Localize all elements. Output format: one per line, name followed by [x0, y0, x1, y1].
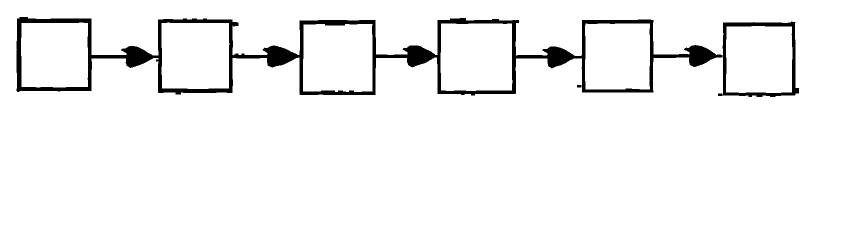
box 1 left-edge bulge: [16, 50, 19, 73]
arrow 1 shaft wire: [91, 55, 153, 59]
arrow 5 shaft wire: [653, 54, 716, 58]
arrow 4 stub wire to next box: [574, 56, 583, 59]
arrow 3 head: [403, 46, 435, 67]
box 4 top-right corner tick: [516, 20, 519, 23]
arrow 1 stub wire to next box: [153, 56, 160, 59]
box 2 bottom-left drip: [176, 92, 182, 94]
box 6 bottom-right corner ear: [795, 88, 799, 93]
box 4 top small bump: [492, 19, 499, 21]
arrow 4 shaft wire: [515, 55, 573, 59]
arrow 1 head: [121, 46, 153, 67]
arrow 3 stub wire to next box: [435, 55, 439, 58]
box 6 bottom-left tick: [718, 93, 723, 95]
box 1 top-left shelf: [20, 17, 29, 20]
arrow 2 shaft top ticks: [235, 53, 245, 55]
box 3 bottom top bumps: [338, 90, 354, 92]
box 2 left-edge tick: [156, 60, 159, 62]
box 2 top bumps: [183, 18, 207, 20]
arrow 2 shaft wire: [232, 55, 297, 59]
box 2 top-right corner ear: [233, 22, 239, 27]
box 3 bottom retrace lump: [321, 91, 335, 93]
box 4 bottom right thickening: [491, 91, 514, 94]
box 3 top mid thickening: [325, 24, 345, 26]
box 1: [17, 19, 91, 91]
box 4 bottom drips: [461, 93, 475, 95]
arrow 2 stub wire to next box: [297, 55, 301, 58]
arrow 5 head: [684, 46, 715, 67]
box 2: [158, 20, 232, 93]
box 6 bottom drips: [749, 95, 776, 97]
arrow 5 stub wire to next box: [716, 55, 723, 58]
box 5: [582, 20, 653, 92]
box 3: [300, 20, 376, 94]
box 5 left-edge tick: [577, 85, 582, 87]
arrow 4 head: [543, 47, 574, 68]
box 1 bottom-left corner blob: [16, 88, 20, 92]
arrow 3 shaft wire: [375, 55, 434, 59]
box 6: [723, 23, 795, 96]
box 4 top bump: [450, 18, 466, 21]
box 6 top-right corner blob: [791, 22, 795, 26]
box 4: [438, 20, 516, 93]
box 5 bottom bump: [626, 89, 633, 91]
arrow 2 head: [263, 46, 297, 67]
